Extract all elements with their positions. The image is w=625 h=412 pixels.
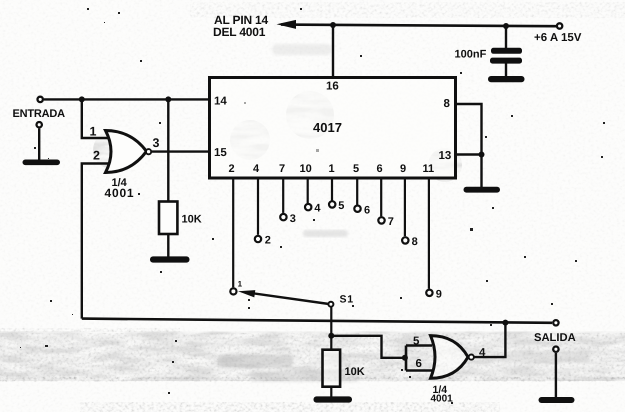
svg-text:11: 11: [423, 163, 435, 175]
svg-text:5: 5: [353, 163, 359, 175]
wire: IC pin 8: [456, 104, 482, 189]
svg-text:2: 2: [93, 149, 100, 163]
switch position contact 1: [230, 288, 236, 294]
svg-text:1: 1: [238, 280, 243, 289]
switch position contact 9: [426, 290, 432, 296]
svg-text:6: 6: [377, 163, 383, 175]
wire: pin 11 stub to position 9: [428, 178, 430, 289]
wire: gate U3 input 5: [406, 344, 432, 347]
svg-text:4017: 4017: [313, 120, 342, 135]
ground (R1): [150, 256, 190, 262]
wire: resistor R1 top lead: [167, 99, 169, 201]
gate U3 tied input bar: [405, 346, 408, 371]
NOR gate U2 1/4 4001: [106, 131, 147, 173]
switch position contact 5: [329, 201, 335, 207]
svg-text:16: 16: [326, 81, 339, 93]
junction S1/R2/gate feed: [328, 333, 334, 339]
wire: supply rail from arrow to +V terminal: [281, 25, 556, 27]
svg-text:SALIDA: SALIDA: [534, 332, 576, 344]
svg-text:S1: S1: [340, 294, 354, 306]
wire: salida line (feedback rail): [82, 319, 552, 323]
wire: entrada to IC pin 14: [44, 98, 210, 100]
wire: pin 4 stub to position 2: [257, 178, 259, 235]
wire: pin 2 stub to position 1: [232, 178, 234, 287]
wire: salida ground stem: [555, 353, 557, 398]
svg-text:100nF: 100nF: [455, 49, 487, 61]
ground (salida): [539, 397, 575, 403]
svg-text:2: 2: [229, 163, 235, 175]
svg-text:7: 7: [279, 163, 285, 175]
ground (entrada): [23, 160, 61, 166]
wire: S1 pole drop across salida line: [330, 307, 332, 336]
junction on rail to pin 16: [330, 22, 336, 28]
wire: R2 top lead: [330, 336, 332, 350]
wire: feed to gate U3 inputs: [331, 336, 406, 358]
switch S1 wiper arm: [248, 293, 329, 304]
resistor R2 10K: [323, 350, 341, 387]
switch position contact 3: [280, 214, 286, 220]
resistor R1 10K: [159, 202, 177, 235]
svg-text:8: 8: [444, 98, 451, 110]
wire: gate U2 output to IC pin 15: [152, 150, 210, 152]
svg-text:10: 10: [300, 163, 312, 175]
wire: pin 5 stub to position 6: [356, 178, 358, 205]
wire: capacitor top lead: [505, 26, 507, 49]
switch position contact 7: [378, 217, 384, 223]
svg-text:1: 1: [329, 163, 335, 175]
wire: gate U2 input 2 feedback: [82, 164, 110, 319]
wire: pin 6 stub to position 7: [380, 178, 382, 216]
switch S1 pole terminal: [328, 302, 333, 307]
svg-text:6: 6: [364, 204, 370, 216]
svg-text:4: 4: [253, 163, 260, 175]
svg-text:9: 9: [400, 163, 406, 175]
svg-text:ENTRADA: ENTRADA: [13, 108, 66, 120]
terminal SALIDA ground side: [553, 347, 558, 352]
switch position contact 2: [255, 236, 261, 242]
wire: entrada ground stem: [38, 129, 40, 161]
junction on rail to capacitor: [503, 23, 509, 29]
gate U3 output bubble: [469, 355, 474, 360]
wire: R2 bottom lead: [330, 387, 332, 398]
gate U2 output bubble: [146, 149, 151, 154]
svg-text:9: 9: [436, 288, 442, 300]
ground (R2): [314, 396, 353, 402]
junction node A (entrada line / gate input 1): [79, 96, 85, 102]
svg-text:4: 4: [314, 203, 321, 215]
svg-text:6: 6: [416, 358, 422, 370]
svg-text:3: 3: [290, 213, 296, 225]
junction pin13/pin8: [479, 152, 485, 158]
terminal ENTRADA ground side: [37, 122, 42, 127]
wire: pin 1 stub to position 5: [331, 178, 333, 201]
wire: gate U3 input 6: [406, 369, 433, 372]
terminal SALIDA: [553, 320, 558, 325]
ground (pin 13): [464, 187, 501, 193]
svg-text:10K: 10K: [182, 214, 202, 226]
terminal +6 A 15V: [557, 23, 562, 28]
arrowhead to AL PIN 14: [277, 20, 297, 29]
svg-text:14: 14: [214, 96, 227, 108]
svg-text:+6 A 15V: +6 A 15V: [534, 32, 582, 44]
wire: resistor R1 bottom lead: [167, 234, 169, 258]
svg-text:DEL 4001: DEL 4001: [213, 25, 266, 39]
svg-text:8: 8: [412, 236, 418, 248]
wire: pin 10 stub to position 4: [307, 178, 309, 203]
switch S1 arrowhead: [238, 290, 255, 297]
svg-text:15: 15: [214, 147, 227, 159]
svg-text:2: 2: [265, 235, 271, 247]
NOR gate U3 1/4 4001: [431, 336, 469, 379]
wire: IC pin 13: [456, 153, 482, 155]
wire: pin 7 stub to position 3: [282, 178, 284, 213]
svg-text:7: 7: [388, 216, 394, 228]
svg-text:13: 13: [439, 150, 452, 162]
ground (capacitor): [488, 76, 525, 82]
wire: pin 16 drop: [332, 25, 334, 78]
wire: pin 9 stub to position 8: [404, 178, 406, 236]
capacitor C1 100nF plate top: [491, 48, 522, 54]
svg-text:10K: 10K: [345, 366, 365, 378]
junction node B (entrada line / resistor R1): [165, 96, 171, 102]
switch position contact 6: [354, 206, 360, 212]
wire: capacitor bottom lead: [505, 64, 507, 78]
switch position contact 4: [305, 204, 311, 210]
IC U1 4017 body: [210, 78, 456, 179]
wire: down to gate U2 input 1: [82, 99, 110, 138]
svg-text:5: 5: [413, 336, 420, 348]
junction gate tied-input bar: [402, 355, 408, 361]
svg-text:5: 5: [338, 200, 344, 212]
svg-text:1: 1: [90, 124, 97, 138]
switch position contact 8: [402, 237, 408, 243]
terminal ENTRADA: [38, 97, 43, 102]
svg-text:3: 3: [153, 136, 160, 150]
svg-text:4001: 4001: [105, 186, 135, 200]
wire: gate U3 output up to salida line: [474, 323, 505, 357]
svg-text:4001: 4001: [431, 394, 454, 405]
junction salida/gate output: [502, 320, 508, 326]
capacitor C1 plate bottom: [490, 58, 522, 64]
